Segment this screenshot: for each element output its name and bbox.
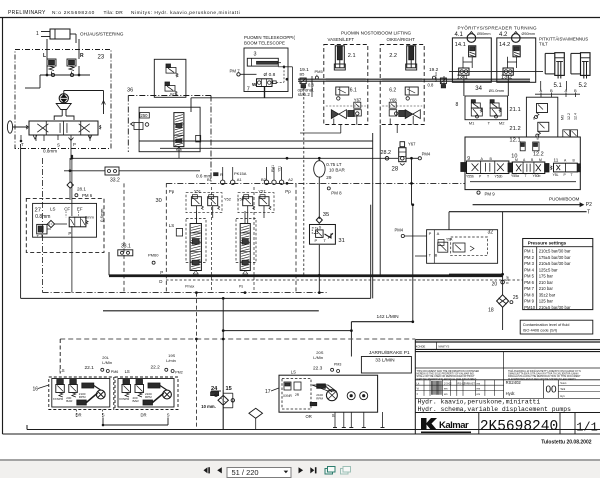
svg-text:22.2: 22.2 — [151, 365, 161, 371]
svg-text:0.75 LT: 0.75 LT — [326, 162, 341, 167]
svg-text:PM4: PM4 — [395, 228, 404, 233]
svg-text:A: A — [437, 231, 440, 236]
svg-text:W: W — [252, 82, 257, 87]
svg-text:S: S — [319, 225, 322, 230]
svg-text:Ø 0.8: Ø 0.8 — [264, 72, 276, 78]
svg-text:33.1: 33.1 — [121, 243, 131, 249]
svg-text:BAR: BAR — [66, 399, 73, 403]
svg-text:PM 8: PM 8 — [524, 292, 534, 297]
svg-text:KOHDE: KOHDE — [416, 345, 426, 349]
svg-text:21.2: 21.2 — [509, 126, 520, 132]
svg-text:10 BAR: 10 BAR — [329, 168, 346, 173]
svg-text:PM 4: PM 4 — [524, 267, 534, 272]
svg-text:B2: B2 — [261, 177, 267, 182]
svg-text:25: 25 — [513, 295, 519, 301]
svg-text:210±5 bar/30 bar: 210±5 bar/30 bar — [539, 249, 571, 254]
svg-text:7: 7 — [247, 87, 250, 93]
svg-text:18: 18 — [488, 307, 494, 313]
svg-text:PYÖRITYS/SPREADER TURNING: PYÖRITYS/SPREADER TURNING — [458, 25, 538, 31]
svg-text:0.8: 0.8 — [428, 82, 434, 87]
svg-text:WRITTEN PERMISSION FROM KALMAR: WRITTEN PERMISSION FROM KALMAR INDUSTRIE… — [417, 378, 477, 381]
svg-text:Ps: Ps — [239, 285, 243, 289]
svg-text:Y53b: Y53b — [495, 174, 503, 178]
svg-text:PUOMIN TELESKOOPPI(: PUOMIN TELESKOOPPI( — [244, 35, 295, 40]
svg-text:30: 30 — [156, 198, 162, 204]
svg-text:T: T — [488, 120, 491, 125]
svg-text:LS: LS — [169, 223, 174, 228]
svg-text:Nimitys: Hydr. kaavio,peruskon: Nimitys: Hydr. kaavio,peruskone,miniratt… — [131, 10, 240, 16]
svg-text:JARRU/BRAKE P1: JARRU/BRAKE P1 — [369, 350, 410, 356]
svg-text:L/Min: L/Min — [102, 360, 112, 365]
svg-text:BOOM TELESCOPE: BOOM TELESCOPE — [244, 41, 285, 46]
svg-text:EF: EF — [77, 207, 83, 212]
svg-text:5.2: 5.2 — [579, 83, 588, 89]
svg-text:15: 15 — [226, 386, 232, 392]
svg-text:PUOMI/BOOM: PUOMI/BOOM — [549, 196, 580, 201]
svg-text:BAR: BAR — [133, 399, 140, 403]
svg-text:PM3: PM3 — [334, 362, 341, 366]
svg-text:PK15A: PK15A — [234, 171, 247, 176]
svg-text:P: P — [564, 173, 567, 177]
svg-text:Pp: Pp — [285, 189, 291, 194]
svg-text:PM60: PM60 — [148, 253, 159, 258]
svg-text:00: 00 — [546, 385, 558, 396]
svg-text:16: 16 — [33, 386, 39, 392]
svg-text:Y5L: Y5L — [553, 173, 559, 177]
svg-text:OR: OR — [306, 414, 312, 419]
svg-text:M2: M2 — [499, 120, 505, 125]
svg-text:PM 5: PM 5 — [524, 274, 534, 279]
svg-text:22.3: 22.3 — [313, 365, 323, 371]
svg-text:Y55b: Y55b — [466, 174, 474, 178]
svg-text:14.1: 14.1 — [455, 42, 466, 48]
svg-text:VASEN/LEFT: VASEN/LEFT — [328, 37, 355, 42]
svg-text:28.1: 28.1 — [77, 187, 86, 192]
svg-text:LS: LS — [291, 369, 296, 374]
svg-text:28.2: 28.2 — [381, 150, 392, 156]
svg-text:S: S — [167, 413, 170, 418]
svg-text:2K5698240: 2K5698240 — [480, 419, 558, 435]
svg-text:Y55a: Y55a — [511, 174, 519, 178]
svg-text:33.2: 33.2 — [110, 178, 120, 184]
svg-text:Y68: Y68 — [389, 98, 397, 103]
svg-text:ers: ers — [444, 392, 448, 396]
svg-text:Y51: Y51 — [277, 166, 281, 172]
svg-text:PUOMIN NOSTO/BOOM LIFTING: PUOMIN NOSTO/BOOM LIFTING — [341, 31, 412, 36]
svg-text:12.1: 12.1 — [509, 138, 520, 144]
svg-text:PM10: PM10 — [524, 305, 536, 310]
svg-text:27: 27 — [35, 208, 41, 214]
svg-text:Pressure settings: Pressure settings — [528, 241, 567, 246]
svg-text:35±2 bar: 35±2 bar — [539, 292, 556, 297]
svg-text:LS: LS — [59, 368, 64, 373]
svg-text:P: P — [73, 142, 76, 147]
svg-text:14.2: 14.2 — [499, 42, 510, 48]
svg-text:Pp: Pp — [169, 189, 175, 194]
svg-text:M: M — [515, 158, 518, 162]
svg-text:M3: M3 — [561, 115, 565, 120]
svg-text:XXNPR: XXNPR — [119, 397, 130, 401]
svg-text:Pmax: Pmax — [185, 285, 194, 289]
svg-text:11: 11 — [554, 158, 559, 163]
svg-text:LS: LS — [125, 369, 130, 374]
svg-text:S: S — [332, 413, 335, 418]
svg-text:Hydr.: Hydr. — [506, 391, 516, 396]
svg-text:8: 8 — [537, 136, 540, 141]
svg-text:A: A — [565, 88, 568, 93]
svg-text:210 bar: 210 bar — [539, 286, 554, 291]
svg-text:0.6mm: 0.6mm — [100, 208, 105, 222]
svg-text:B: B — [490, 157, 493, 161]
svg-text:2.2: 2.2 — [389, 53, 397, 59]
svg-text:PM 6: PM 6 — [82, 193, 93, 198]
svg-text:28: 28 — [392, 167, 399, 173]
svg-text:B1: B1 — [207, 177, 213, 182]
svg-text:Tark: Tark — [560, 387, 566, 391]
svg-text:Y5A: Y5A — [446, 238, 453, 242]
svg-text:Tulostettu 20.08.2002: Tulostettu 20.08.2002 — [541, 439, 591, 445]
svg-text:RS2402: RS2402 — [506, 380, 522, 385]
svg-text:R: R — [80, 53, 84, 59]
svg-text:12.2: 12.2 — [533, 152, 544, 158]
svg-text:Vt: Vt — [417, 387, 420, 391]
svg-text:RPM: RPM — [145, 395, 152, 399]
svg-text:8: 8 — [456, 102, 459, 108]
svg-text:34: 34 — [475, 86, 482, 92]
svg-text:Ø50mm: Ø50mm — [477, 32, 491, 36]
svg-text:10 mm.: 10 mm. — [201, 404, 215, 409]
svg-text:T: T — [429, 253, 432, 258]
svg-text:M: M — [539, 158, 542, 162]
svg-text:L/Min: L/Min — [313, 355, 323, 360]
svg-text:175 bar: 175 bar — [539, 274, 554, 279]
svg-text:L/min: L/min — [166, 358, 176, 363]
svg-text:T: T — [21, 142, 24, 147]
svg-text:P: P — [315, 238, 318, 243]
svg-text:250: 250 — [141, 113, 149, 118]
svg-text:PM 2: PM 2 — [524, 255, 534, 260]
svg-text:T: T — [525, 174, 527, 178]
svg-text:0 bar: 0 bar — [506, 275, 510, 284]
svg-text:A: A — [564, 159, 567, 163]
svg-text:XXNR: XXNR — [283, 394, 293, 398]
svg-text:Y50b: Y50b — [533, 174, 541, 178]
svg-text:T: T — [487, 174, 489, 178]
svg-text:T: T — [571, 173, 573, 177]
svg-text:OHJAUS/STEERING: OHJAUS/STEERING — [80, 32, 124, 37]
svg-text:23: 23 — [98, 55, 105, 61]
svg-text:1: 1 — [36, 31, 39, 37]
svg-text:P: P — [479, 174, 482, 178]
svg-text:17: 17 — [265, 389, 271, 395]
svg-text:PM2: PM2 — [175, 370, 182, 374]
svg-text:PM 9: PM 9 — [524, 299, 534, 304]
svg-text:XXNPR: XXNPR — [53, 397, 64, 401]
svg-text:NIMITYS: NIMITYS — [438, 345, 449, 349]
svg-text:29: 29 — [326, 175, 332, 180]
svg-text:RPM: RPM — [316, 397, 323, 401]
svg-text:N:o 2K5698240: N:o 2K5698240 — [52, 10, 95, 16]
svg-text:L: L — [43, 53, 46, 59]
svg-text:ers: ers — [477, 392, 481, 396]
svg-text:PM 8: PM 8 — [331, 191, 342, 196]
svg-text:T: T — [587, 209, 590, 215]
svg-text:B: B — [550, 88, 553, 93]
svg-text:Ø50mm: Ø50mm — [522, 32, 536, 36]
svg-text:T: T — [324, 238, 327, 243]
svg-text:13.2: 13.2 — [501, 74, 512, 80]
svg-text:P: P — [429, 231, 432, 236]
svg-text:TARKAST: TARKAST — [464, 382, 475, 385]
svg-text:2-3-02: 2-3-02 — [444, 381, 452, 385]
svg-text:ISO 4406 code (S/I): ISO 4406 code (S/I) — [523, 328, 558, 333]
svg-text:PM 1: PM 1 — [524, 249, 534, 254]
svg-text:B: B — [573, 159, 576, 163]
svg-text:PM4: PM4 — [422, 152, 431, 157]
svg-text:SULKU: SULKU — [434, 72, 438, 82]
svg-text:PM5: PM5 — [315, 69, 324, 74]
svg-text:DR: DR — [141, 413, 147, 418]
svg-text:31: 31 — [338, 238, 344, 244]
svg-text:W: W — [170, 92, 174, 97]
svg-text:Suun: Suun — [560, 381, 567, 385]
svg-text:125±5 bar: 125±5 bar — [539, 267, 558, 272]
svg-text:PM 3: PM 3 — [524, 261, 534, 266]
svg-text:Ø1.0mm: Ø1.0mm — [489, 88, 505, 93]
svg-text:LS: LS — [50, 207, 55, 212]
svg-text:2.1: 2.1 — [348, 53, 356, 59]
svg-text:175±5 bar/30 bar: 175±5 bar/30 bar — [539, 255, 571, 260]
svg-text:6: 6 — [533, 116, 536, 121]
svg-text:A: A — [540, 88, 543, 93]
svg-text:Kalmar: Kalmar — [439, 420, 469, 431]
svg-text:D: D — [159, 279, 162, 284]
svg-text:P: P — [160, 270, 163, 275]
svg-text:4.1: 4.1 — [455, 32, 464, 38]
svg-text:B5: B5 — [300, 71, 306, 76]
svg-text:A2: A2 — [288, 177, 294, 182]
svg-text:Y67: Y67 — [408, 142, 416, 147]
svg-text:20: 20 — [492, 282, 498, 288]
svg-text:0.8mm: 0.8mm — [43, 149, 57, 154]
svg-text:ers: ers — [477, 381, 481, 385]
svg-text:Y67: Y67 — [354, 98, 362, 103]
svg-text:12.4: 12.4 — [574, 113, 578, 120]
svg-text:A: A — [523, 158, 526, 162]
svg-text:21.1: 21.1 — [509, 107, 520, 113]
svg-text:36: 36 — [127, 88, 133, 94]
svg-text:210±5 bar/30 bar: 210±5 bar/30 bar — [539, 305, 571, 310]
svg-text:B: B — [435, 253, 438, 258]
svg-text:51 / 220: 51 / 220 — [232, 468, 259, 477]
svg-text:PM 6: PM 6 — [524, 280, 534, 285]
svg-text:35: 35 — [323, 212, 329, 218]
svg-text:3: 3 — [254, 52, 257, 58]
svg-text:33 L/MIN: 33 L/MIN — [375, 358, 395, 364]
svg-text:22.1: 22.1 — [85, 365, 95, 371]
svg-text:6.1: 6.1 — [350, 88, 357, 94]
svg-text:Contamination level of fluid: Contamination level of fluid — [523, 322, 570, 327]
svg-text:PRELIMINARY: PRELIMINARY — [8, 10, 46, 16]
svg-text:±: ± — [417, 393, 419, 396]
svg-text:142 L/MIN: 142 L/MIN — [377, 314, 400, 320]
svg-text:13.1: 13.1 — [457, 74, 468, 80]
svg-text:1/1: 1/1 — [576, 421, 598, 435]
svg-text:P: P — [68, 231, 71, 236]
svg-text:TILT: TILT — [539, 42, 548, 47]
svg-text:5.1: 5.1 — [554, 83, 563, 89]
svg-text:PM6: PM6 — [111, 370, 118, 374]
svg-text:ers: ers — [477, 387, 481, 391]
svg-text:Hydr. kaavio,peruskone,minirat: Hydr. kaavio,peruskone,miniratti — [418, 399, 541, 406]
svg-text:M1: M1 — [469, 120, 475, 125]
svg-text:PM 9: PM 9 — [485, 191, 496, 196]
svg-text:Tila: DR: Tila: DR — [104, 10, 124, 16]
svg-text:P2: P2 — [586, 202, 592, 208]
svg-text:210±5 bar/30 bar: 210±5 bar/30 bar — [539, 261, 571, 266]
svg-text:210 bar: 210 bar — [539, 280, 554, 285]
svg-text:4.2: 4.2 — [499, 32, 508, 38]
svg-text:3mm: 3mm — [85, 215, 95, 220]
svg-text:Lk: Lk — [417, 381, 420, 385]
svg-text:S: S — [57, 143, 60, 148]
svg-text:6.2: 6.2 — [389, 88, 396, 94]
svg-text:Y52: Y52 — [224, 196, 232, 201]
svg-text:2R: 2R — [295, 393, 300, 397]
svg-text:A1: A1 — [237, 177, 243, 182]
svg-text:B: B — [531, 158, 534, 162]
svg-text:Hyv: Hyv — [560, 394, 565, 398]
svg-text:ers: ers — [444, 387, 448, 391]
svg-text:PM 7: PM 7 — [524, 286, 534, 291]
svg-text:12.2: 12.2 — [567, 113, 571, 120]
svg-text:CF: CF — [64, 207, 70, 212]
svg-text:RPM: RPM — [79, 395, 86, 399]
svg-text:32: 32 — [488, 230, 494, 236]
svg-text:125 bar: 125 bar — [539, 299, 554, 304]
svg-text:OIKEA/RIGHT: OIKEA/RIGHT — [387, 37, 416, 42]
svg-text:A: A — [481, 157, 484, 161]
svg-text:B: B — [574, 88, 577, 93]
